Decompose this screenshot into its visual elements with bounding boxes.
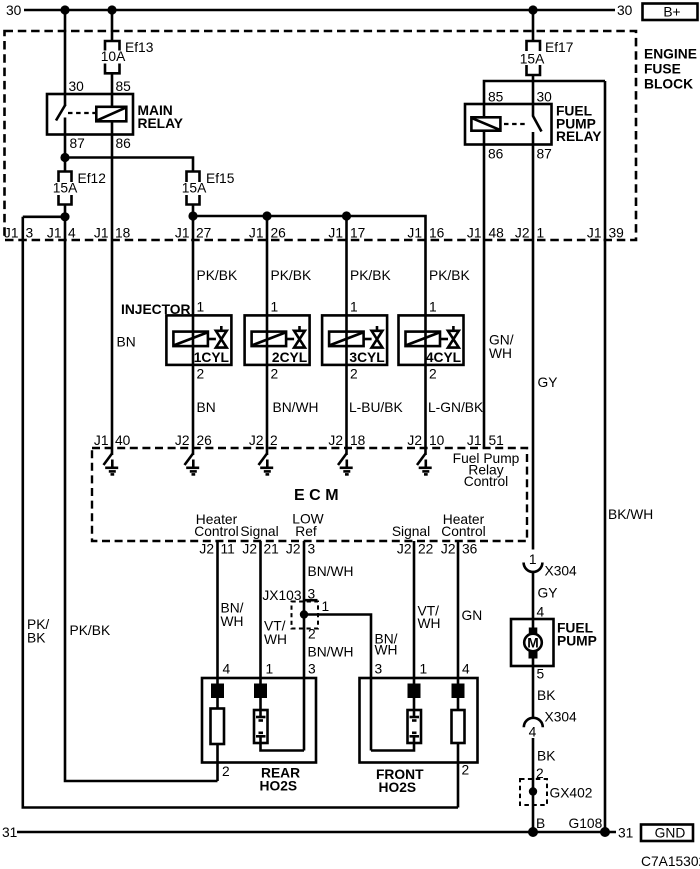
svg-text:WH: WH: [489, 346, 512, 361]
svg-text:J2: J2: [175, 433, 190, 448]
front HO2S box: [360, 678, 478, 763]
svg-text:GND: GND: [655, 826, 686, 841]
connector row label J1|3: [4, 226, 34, 241]
connector row label J1|4: [47, 226, 76, 241]
svg-text:2: 2: [350, 367, 358, 382]
svg-text:3: 3: [308, 662, 316, 677]
wire J2|11 to rear HO2S heater: [216, 541, 219, 684]
svg-text:HO2S: HO2S: [379, 780, 417, 795]
svg-text:1: 1: [429, 300, 437, 315]
ground inside ECM at J2|10: [417, 448, 432, 474]
svg-text:22: 22: [418, 542, 433, 557]
svg-text:FUSE: FUSE: [644, 62, 681, 77]
wire J2|21 to rear HO2S signal: [259, 541, 262, 684]
svg-text:2: 2: [197, 367, 205, 382]
wire branch to Ef15: [65, 158, 193, 172]
ECM pin label J2|18: [328, 433, 365, 448]
svg-text:Control: Control: [194, 524, 238, 539]
svg-text:J2: J2: [242, 542, 257, 557]
svg-text:18: 18: [350, 433, 366, 448]
svg-text:30: 30: [6, 3, 22, 18]
front HO2S sensor cell: [408, 698, 422, 743]
svg-text:GY: GY: [538, 586, 558, 601]
svg-text:BN/WH: BN/WH: [273, 400, 319, 415]
fuel pump relay coil wires: [483, 104, 486, 145]
svg-text:Ef15: Ef15: [206, 171, 235, 186]
wire label VT/WH rear signal: [264, 619, 287, 648]
wire rear sensor cell to pin 3: [261, 743, 305, 751]
wire bus30 to main relay pin 30: [64, 10, 67, 94]
svg-text:JX103: JX103: [262, 588, 301, 603]
svg-text:BLOCK: BLOCK: [644, 77, 693, 92]
junction JX103 splice: [300, 610, 308, 618]
junction on bus 30 at wire J1|4: [60, 5, 69, 14]
junction on bus 30 at wire J1|18: [107, 5, 116, 14]
svg-text:J2: J2: [441, 542, 456, 557]
svg-text:L-GN/BK: L-GN/BK: [428, 400, 484, 415]
ground inside ECM at J1|40: [104, 448, 119, 474]
svg-text:4: 4: [529, 725, 537, 740]
svg-text:BK: BK: [537, 749, 556, 764]
wire JX103 to front HO2S low ref: [304, 615, 371, 751]
wire X304 to fuel pump: [532, 572, 535, 619]
engine fuse block dashed boundary: [5, 31, 637, 240]
svg-text:J1: J1: [94, 226, 109, 241]
connector JX103 dashed box: [292, 602, 319, 629]
svg-text:31: 31: [618, 826, 633, 841]
wire fuel pump relay 86 to ECM J1|51: [483, 145, 486, 449]
svg-text:4: 4: [223, 662, 231, 677]
svg-text:36: 36: [462, 542, 478, 557]
junction G108 at BK wire: [528, 827, 538, 837]
wire fuel pump relay 85 feed: [484, 81, 605, 104]
main relay switch contact: [56, 94, 66, 135]
svg-text:4CYL: 4CYL: [426, 350, 461, 365]
ECM fuel pump relay control note: [453, 451, 520, 489]
svg-text:2CYL: 2CYL: [272, 350, 307, 365]
svg-text:10: 10: [429, 433, 445, 448]
ECM pin label J2|2: [249, 433, 278, 448]
svg-text:J2: J2: [328, 433, 343, 448]
svg-text:GX402: GX402: [550, 786, 593, 801]
rear HO2S box: [202, 678, 316, 763]
wire label VT/WH front signal: [418, 604, 441, 632]
svg-text:WH: WH: [418, 616, 441, 631]
svg-text:J1: J1: [249, 226, 264, 241]
svg-text:WH: WH: [221, 614, 244, 629]
svg-text:J1: J1: [407, 226, 422, 241]
rear HO2S heater element: [211, 698, 225, 744]
svg-text:PK/BK: PK/BK: [350, 268, 391, 283]
splice GX402 dashed box: [520, 779, 547, 805]
wire J2|3 low ref to JX103: [303, 541, 306, 751]
svg-text:1: 1: [197, 300, 205, 315]
wire bus 30 top: [24, 9, 615, 12]
connector row label J1|26: [249, 226, 286, 241]
svg-text:1: 1: [420, 662, 428, 677]
svg-text:21: 21: [264, 542, 279, 557]
svg-text:2: 2: [271, 367, 279, 382]
svg-text:BN/WH: BN/WH: [308, 564, 354, 579]
ground inside ECM at J2|2: [259, 448, 274, 474]
svg-text:3: 3: [375, 662, 383, 677]
ground GND box: [641, 825, 693, 842]
svg-text:15A: 15A: [520, 52, 545, 67]
svg-text:31: 31: [2, 825, 17, 840]
svg-text:11: 11: [221, 542, 235, 557]
svg-text:J2: J2: [249, 433, 264, 448]
svg-text:Ef17: Ef17: [545, 40, 573, 55]
svg-text:1: 1: [529, 552, 537, 567]
svg-text:2: 2: [429, 367, 437, 382]
svg-text:3CYL: 3CYL: [349, 350, 384, 365]
ECM pin label J1|40: [94, 433, 131, 448]
main relay label: [138, 103, 184, 131]
wire Ef17 to fuel pump relay pin 30: [532, 75, 535, 104]
connector JX103 pin 3 label: [304, 587, 318, 602]
connector row label J1|48: [467, 226, 504, 241]
svg-text:30: 30: [69, 79, 85, 94]
svg-text:87: 87: [537, 147, 552, 162]
connector X304 upper half: [524, 563, 543, 572]
svg-text:Control: Control: [464, 474, 508, 489]
svg-text:J1: J1: [587, 226, 602, 241]
fuel pump box: [511, 619, 554, 666]
svg-text:4: 4: [462, 662, 470, 677]
svg-text:27: 27: [196, 226, 211, 241]
fuel pump relay switch contact: [533, 104, 542, 145]
wire injector 4 feed: [424, 315, 427, 448]
front HO2S label: [376, 767, 424, 795]
injector 4CYL: [399, 315, 464, 365]
wire main relay 86 to ECM J1|40: [111, 135, 114, 449]
connector row label J1|27: [175, 226, 211, 241]
svg-text:PUMP: PUMP: [557, 634, 597, 649]
fuse Ef15: [182, 171, 235, 205]
svg-text:GY: GY: [538, 375, 558, 390]
connector row label J1|39: [587, 226, 624, 241]
ECM dashed boundary: [92, 448, 527, 541]
svg-text:J2: J2: [286, 542, 301, 557]
junction on bus 30 at wire J2|1: [528, 5, 537, 14]
wire front sensor cell to pin 3: [371, 743, 414, 751]
svg-text:2: 2: [308, 627, 316, 642]
fuel pump motor: [524, 619, 542, 666]
wire injector 3 feed: [345, 216, 348, 448]
ECM pin label J2|36: [441, 542, 478, 557]
svg-text:Signal: Signal: [392, 524, 430, 539]
main relay box: [47, 94, 133, 135]
svg-text:X304: X304: [545, 564, 578, 579]
svg-text:BN: BN: [197, 400, 216, 415]
ground inside ECM at J2|26: [185, 448, 200, 474]
svg-text:51: 51: [489, 433, 504, 448]
ECM pin label J2|3: [286, 542, 316, 557]
main relay coil wires: [111, 94, 114, 135]
svg-text:1: 1: [322, 599, 330, 614]
wire fuel pump relay 87 to X304: [532, 145, 535, 550]
svg-text:Signal: Signal: [240, 524, 278, 539]
wire label BN/WH front low ref: [375, 632, 398, 658]
ECM output note low ref: [292, 512, 323, 539]
svg-text:J1: J1: [467, 226, 482, 241]
svg-text:2: 2: [462, 763, 470, 778]
front HO2S terminal pin1: [408, 684, 421, 699]
svg-text:BN/WH: BN/WH: [308, 645, 354, 660]
svg-text:18: 18: [115, 226, 131, 241]
injector feed rail: [193, 216, 426, 315]
svg-text:2: 2: [270, 433, 278, 448]
svg-text:1: 1: [266, 662, 274, 677]
injector 3CYL: [322, 315, 387, 365]
splice GX402 junction: [529, 787, 537, 795]
wire front heater to pin 2: [457, 743, 460, 808]
wire J2|36 to front HO2S heater: [457, 541, 460, 684]
svg-text:J1: J1: [328, 226, 343, 241]
junction rail at J1|17: [342, 211, 351, 220]
ECM pin label J2|26: [175, 433, 212, 448]
ECM output note heater control front: [441, 512, 485, 539]
svg-text:Control: Control: [441, 524, 485, 539]
battery feed B+ box: [643, 4, 698, 21]
wire J1|4 PK/BK second column: [65, 205, 218, 782]
svg-text:26: 26: [271, 226, 287, 241]
svg-text:J1: J1: [175, 226, 190, 241]
svg-text:PK/BK: PK/BK: [197, 268, 238, 283]
svg-text:BK: BK: [537, 688, 556, 703]
front HO2S heater element: [452, 698, 465, 743]
svg-text:B: B: [536, 816, 545, 831]
svg-text:1: 1: [271, 300, 279, 315]
fuse Ef12: [53, 171, 106, 205]
svg-text:C7A15302: C7A15302: [641, 854, 700, 869]
svg-text:RELAY: RELAY: [138, 116, 184, 131]
wire rear heater to pin 2: [216, 744, 219, 781]
svg-text:39: 39: [609, 226, 625, 241]
svg-text:Ref: Ref: [295, 524, 317, 539]
svg-text:J1: J1: [467, 433, 482, 448]
svg-text:1: 1: [350, 300, 358, 315]
svg-text:Ef12: Ef12: [78, 171, 106, 186]
svg-text:48: 48: [489, 226, 505, 241]
wire J1|3 PK/BK left column: [23, 217, 458, 808]
svg-text:G108: G108: [569, 816, 603, 831]
wire fuel pump to X304 lower: [532, 666, 535, 717]
rear HO2S sensor cell: [254, 698, 268, 743]
ECM pin label J1|51: [467, 433, 504, 448]
svg-text:10A: 10A: [101, 49, 126, 64]
ECM pin label J2|11: [199, 542, 234, 557]
connector row label J2|1: [515, 226, 544, 241]
svg-text:15A: 15A: [53, 180, 78, 195]
svg-text:J2: J2: [407, 433, 422, 448]
svg-text:J2: J2: [515, 226, 530, 241]
wire J1|39 BK/WH down right side: [604, 81, 607, 832]
wire branch Ef12 output to J1|3: [23, 216, 65, 219]
svg-text:4: 4: [537, 605, 545, 620]
main relay actuator dashed link: [68, 112, 95, 114]
svg-text:WH: WH: [264, 632, 287, 647]
wire X304 to GX402: [532, 738, 535, 832]
fuel pump relay coil: [471, 117, 500, 130]
svg-text:1: 1: [537, 226, 545, 241]
svg-text:2: 2: [222, 764, 230, 779]
svg-text:30: 30: [617, 3, 633, 18]
svg-text:GN: GN: [462, 608, 483, 623]
svg-text:86: 86: [116, 136, 132, 151]
svg-text:5: 5: [537, 667, 545, 682]
junction Ef12 output: [60, 212, 69, 221]
svg-text:HO2S: HO2S: [260, 779, 298, 794]
ECM output note heater control rear: [194, 512, 238, 539]
svg-text:1CYL: 1CYL: [194, 350, 229, 365]
svg-text:15A: 15A: [182, 180, 207, 195]
fuel pump relay box: [465, 104, 552, 145]
wire label BN/WH rear heater: [221, 601, 244, 630]
svg-text:RELAY: RELAY: [556, 129, 602, 144]
svg-text:PK/BK: PK/BK: [271, 268, 312, 283]
svg-text:X304: X304: [545, 710, 578, 725]
svg-text:J1: J1: [94, 433, 109, 448]
svg-text:30: 30: [537, 90, 553, 105]
svg-text:B+: B+: [663, 5, 680, 20]
wire bus 31 bottom: [17, 831, 616, 834]
rear HO2S label: [260, 766, 301, 794]
junction rail at J1|26: [262, 211, 271, 220]
wire label GN/WH: [489, 333, 514, 362]
svg-text:J1: J1: [47, 226, 62, 241]
svg-text:PK/BK: PK/BK: [70, 623, 111, 638]
svg-text:85: 85: [116, 79, 132, 94]
svg-text:17: 17: [350, 226, 365, 241]
junction under main relay 87: [60, 153, 69, 162]
connector row label J1|16: [407, 226, 444, 241]
svg-text:L-BU/BK: L-BU/BK: [349, 400, 403, 415]
svg-text:WH: WH: [375, 643, 398, 658]
fuel pump label: [557, 621, 597, 649]
svg-text:40: 40: [115, 433, 131, 448]
svg-text:BK/WH: BK/WH: [608, 507, 653, 522]
ECM pin label J2|22: [397, 542, 433, 557]
injector 2CYL: [245, 315, 310, 365]
svg-text:86: 86: [488, 147, 504, 162]
svg-text:26: 26: [197, 433, 213, 448]
main relay coil: [96, 107, 126, 122]
svg-text:M: M: [527, 636, 539, 651]
wire bus30 to fuse Ef13: [111, 10, 114, 42]
svg-text:3: 3: [308, 542, 316, 557]
svg-text:3: 3: [26, 226, 34, 241]
fuse Ef17: [520, 40, 574, 75]
svg-text:J2: J2: [199, 542, 214, 557]
svg-text:J1: J1: [4, 226, 19, 241]
svg-text:4: 4: [68, 226, 76, 241]
ECM pin label J2|10: [407, 433, 444, 448]
engine fuse block label: [644, 47, 697, 92]
wire Ef13 to main relay pin 85: [111, 73, 114, 94]
front HO2S terminal pin4: [452, 684, 465, 699]
connector row label J1|17: [328, 226, 365, 241]
svg-text:85: 85: [488, 90, 504, 105]
fuel pump relay actuator dashed link: [504, 123, 528, 125]
ECM pin label J2|21: [242, 542, 278, 557]
rear HO2S terminal pin4: [211, 684, 224, 699]
svg-text:BK: BK: [27, 631, 46, 646]
svg-text:PK/BK: PK/BK: [429, 268, 470, 283]
fuel pump relay label: [556, 104, 602, 145]
svg-text:ECM: ECM: [294, 487, 343, 504]
wire J2|22 to front HO2S signal: [413, 541, 416, 684]
rear HO2S terminal pin1: [254, 684, 267, 699]
injector 1CYL: [166, 315, 231, 365]
junction G108 at BK/WH wire: [600, 827, 610, 837]
fuse Ef13: [101, 40, 154, 73]
junction rail at J1|27: [188, 211, 197, 220]
connector X304 lower half: [524, 718, 543, 728]
svg-text:BN: BN: [117, 335, 136, 350]
wire Ef15 to injector feed rail: [192, 205, 195, 449]
svg-text:J2: J2: [397, 542, 412, 557]
svg-text:87: 87: [70, 136, 85, 151]
connector row label J1|18: [94, 226, 131, 241]
svg-text:ENGINE: ENGINE: [644, 47, 697, 62]
svg-text:Ef13: Ef13: [125, 40, 154, 55]
ground inside ECM at J2|18: [338, 448, 353, 474]
wire main relay 87 to junction: [64, 135, 67, 172]
svg-text:16: 16: [429, 226, 445, 241]
wire injector 2 feed: [266, 216, 269, 448]
wire Ef17 drop from bus 30: [532, 10, 535, 42]
wire label PK/BK column J1|3: [27, 617, 49, 646]
